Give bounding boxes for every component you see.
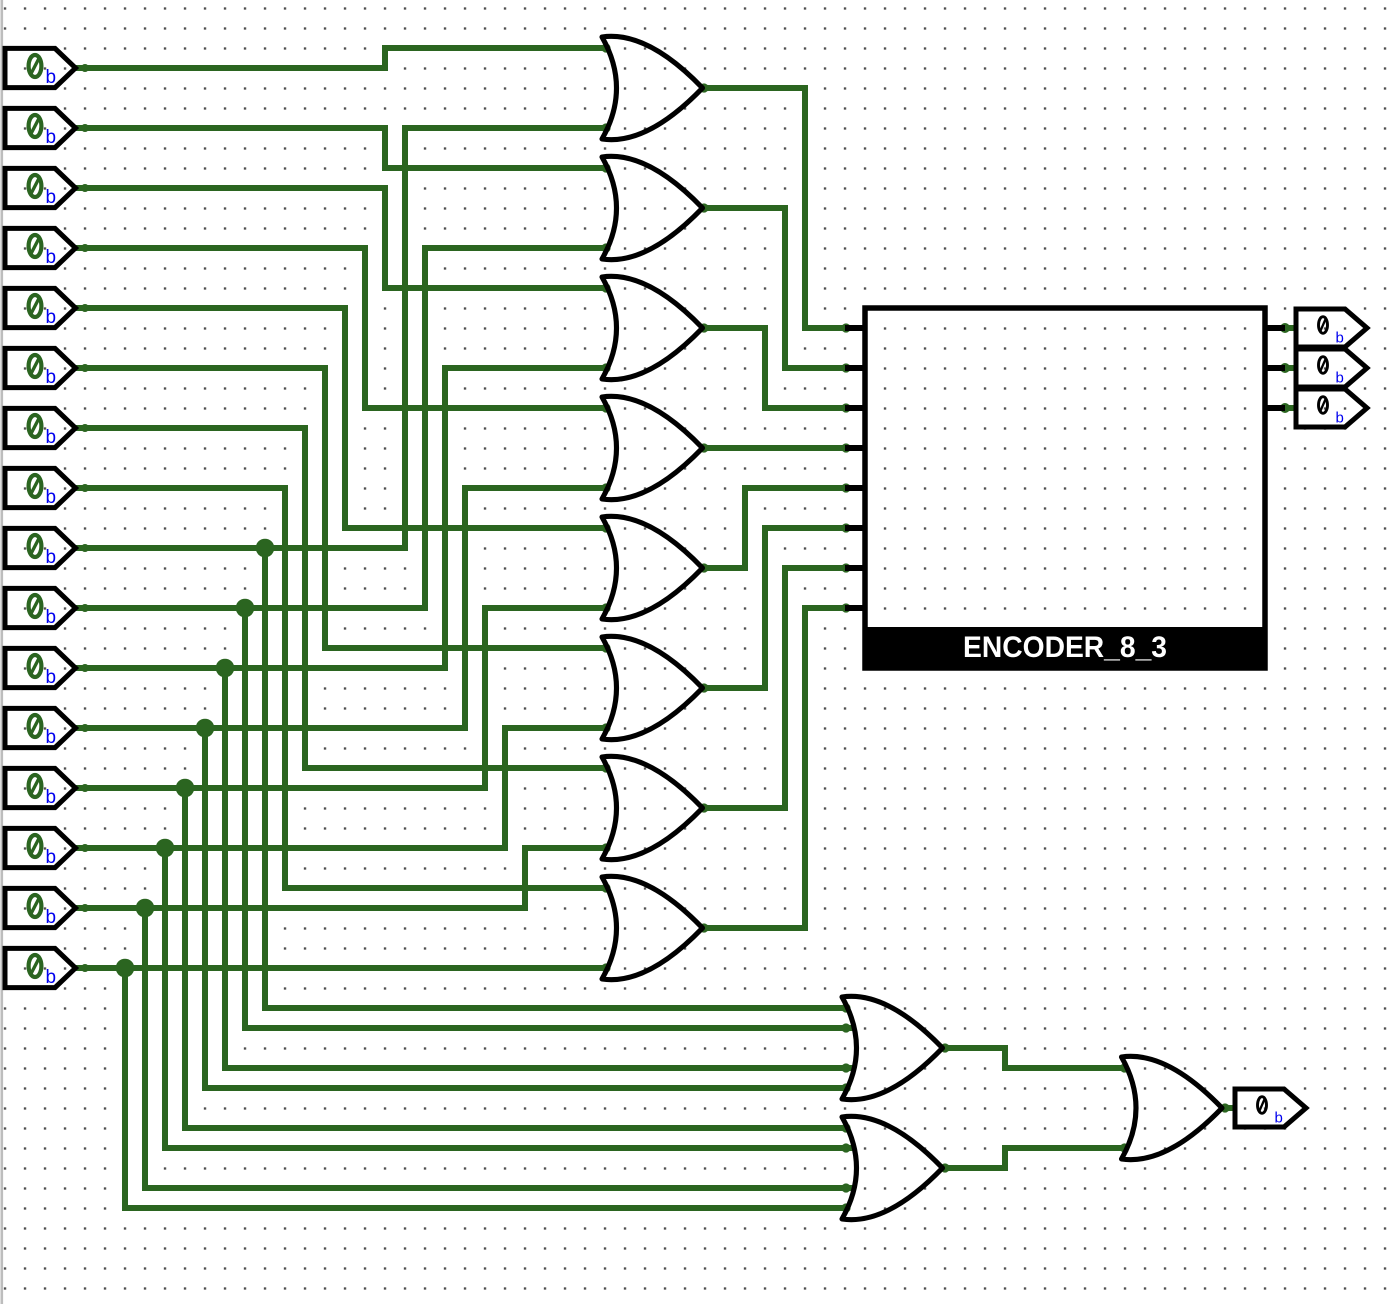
or-gate U1: [602, 36, 703, 139]
wire I5 to OR U5 input A: [76, 308, 608, 528]
node OR input y=168: [601, 163, 610, 172]
node I15 pin output: [81, 904, 89, 912]
node OR U2 output: [699, 203, 708, 212]
wire I8 to OR U8 input A: [76, 488, 608, 888]
node OR input y=488: [601, 483, 610, 492]
svg-text:b: b: [46, 847, 57, 868]
node OR U11 input 1: [841, 1123, 850, 1132]
wire I9 to OR U1 input B: [76, 128, 608, 548]
node I8 pin output: [81, 484, 89, 492]
node encoder IN0: [841, 323, 850, 332]
wire I2 to OR U2 input A: [76, 128, 608, 168]
svg-text:b: b: [46, 67, 57, 88]
or-gate U2: [602, 156, 703, 259]
encoder U9 ENCODER_8_3: [845, 308, 1285, 670]
wire OR U3 output to encoder IN2: [703, 328, 846, 408]
wire encoder OUT0 to pin O1: [1283, 325, 1297, 331]
node encoder IN7: [841, 603, 850, 612]
wire I9 branch to OR U10: [265, 548, 846, 1008]
wire I10 branch to OR U10: [245, 608, 853, 1028]
svg-text:b: b: [46, 787, 57, 808]
wire I7 to OR U7 input A: [76, 428, 608, 768]
svg-text:b: b: [1336, 410, 1344, 427]
wire encoder OUT1 to pin O2: [1283, 365, 1297, 371]
wire I3 to OR U3 input A: [76, 188, 608, 288]
output pin O4: [1235, 1089, 1306, 1127]
node OR U4 output: [699, 443, 708, 452]
input pin I15: [5, 888, 76, 928]
svg-text:b: b: [1275, 1110, 1283, 1127]
node OR U3 output: [699, 323, 708, 332]
node OR U10 input 2: [841, 1023, 850, 1032]
svg-text:b: b: [46, 967, 57, 988]
node encoder OUT1: [1280, 363, 1290, 373]
node I5 pin output: [81, 304, 89, 312]
input pin I7: [5, 408, 76, 448]
node OR U7 output: [699, 803, 708, 812]
svg-text:b: b: [46, 907, 57, 928]
wire encoder OUT2 to pin O3: [1283, 405, 1297, 411]
or-gate U8: [602, 876, 703, 979]
or-gate U4: [602, 396, 703, 499]
wire OR U8 output to encoder IN7: [703, 608, 846, 928]
node OR U10 input 3: [841, 1063, 850, 1072]
node I9 pin output: [81, 544, 89, 552]
wire I15 to OR U7 input B: [76, 848, 608, 908]
node OR input y=728: [601, 723, 610, 732]
node OR input y=888: [601, 883, 610, 892]
wire I10 to OR U2 input B: [76, 248, 608, 608]
wire I16 branch to OR U11: [125, 968, 846, 1208]
wire OR U12 output to pin O4: [1225, 1105, 1237, 1111]
node OR input y=288: [601, 283, 610, 292]
node OR input y=768: [601, 763, 610, 772]
node I13 pin output: [81, 784, 89, 792]
node encoder IN5: [841, 523, 850, 532]
svg-text:b: b: [46, 487, 57, 508]
input pin I10: [5, 588, 76, 628]
junction I16 branch: [116, 959, 135, 978]
svg-text:b: b: [46, 127, 57, 148]
wire OR U4 output to encoder IN3: [703, 445, 846, 451]
junction I10 branch: [236, 599, 255, 618]
node OR input y=368: [601, 363, 610, 372]
node encoder IN1: [841, 363, 850, 372]
output pin O2: [1296, 349, 1367, 387]
wire I12 to OR U4 input B: [76, 488, 608, 728]
wire OR U1 output to encoder IN0: [703, 88, 846, 328]
node OR input y=408: [601, 403, 610, 412]
junction I9 branch: [256, 539, 275, 558]
input pin I1: [5, 48, 76, 88]
node OR input y=648: [601, 643, 610, 652]
wire OR U7 output to encoder IN6: [703, 568, 846, 808]
or-gate U5: [602, 516, 703, 619]
node OR U5 output: [699, 563, 708, 572]
or-gate U10: [842, 996, 943, 1099]
node I1 pin output: [81, 64, 89, 72]
junction I11 branch: [216, 659, 235, 678]
wire I6 to OR U6 input A: [76, 368, 608, 648]
node OR U10 input 1: [841, 1003, 850, 1012]
input pin I3: [5, 168, 76, 208]
node OR U8 output: [699, 923, 708, 932]
node OR input y=528: [601, 523, 610, 532]
junction I14 branch: [156, 839, 175, 858]
wire OR U2 output to encoder IN1: [703, 208, 846, 368]
or-gate U7: [602, 756, 703, 859]
node OR U11 input 2: [841, 1143, 850, 1152]
wire I15 branch to OR U11: [145, 908, 853, 1188]
output pin O3: [1296, 389, 1367, 427]
node I7 pin output: [81, 424, 89, 432]
wire I13 to OR U5 input B: [76, 608, 608, 788]
svg-text:b: b: [46, 667, 57, 688]
node I2 pin output: [81, 124, 89, 132]
svg-text:b: b: [46, 727, 57, 748]
node OR input y=968: [601, 963, 610, 972]
or-gate U11: [842, 1116, 943, 1219]
wire I14 to OR U6 input B: [76, 728, 608, 848]
svg-text:b: b: [1336, 330, 1344, 347]
svg-text:b: b: [46, 427, 57, 448]
input pin I4: [5, 228, 76, 268]
node encoder IN6: [841, 563, 850, 572]
input pin I8: [5, 468, 76, 508]
wire I1 to OR U1 input A: [76, 48, 608, 68]
svg-text:b: b: [46, 187, 57, 208]
or-gate U3: [602, 276, 703, 379]
svg-text:b: b: [46, 607, 57, 628]
input pin I6: [5, 348, 76, 388]
node OR input y=48: [601, 43, 610, 52]
node OR U1 output: [699, 83, 708, 92]
input pin I9: [5, 528, 76, 568]
node I14 pin output: [81, 844, 89, 852]
node I11 pin output: [81, 664, 89, 672]
or-gate U12: [1122, 1056, 1223, 1159]
input pin I5: [5, 288, 76, 328]
svg-text:b: b: [46, 367, 57, 388]
wire I16 to OR U8 input B: [76, 965, 608, 971]
input pin I2: [5, 108, 76, 148]
wire I14 branch to OR U11: [165, 848, 853, 1148]
wire I11 to OR U3 input B: [76, 368, 608, 668]
wire OR U6 output to encoder IN5: [703, 528, 846, 688]
node OR input y=608: [601, 603, 610, 612]
node I4 pin output: [81, 244, 89, 252]
node OR input y=848: [601, 843, 610, 852]
node OR U11 input 3: [841, 1183, 850, 1192]
node encoder IN4: [841, 483, 850, 492]
output pin O1: [1296, 309, 1367, 347]
node OR U10 input 4: [841, 1083, 850, 1092]
input pin I14: [5, 828, 76, 868]
node OR input y=128: [601, 123, 610, 132]
node OR U12 input B: [1120, 1143, 1129, 1152]
svg-text:ENCODER_8_3: ENCODER_8_3: [963, 631, 1167, 664]
node encoder OUT2: [1280, 403, 1290, 413]
wire I13 branch to OR U11: [185, 788, 846, 1128]
input pin I13: [5, 768, 76, 808]
node OR input y=248: [601, 243, 610, 252]
node OR U12 output: [1220, 1103, 1229, 1112]
or-gate U6: [602, 636, 703, 739]
wire OR U10 output to OR U12 input A: [945, 1048, 1128, 1068]
input pin I16: [5, 948, 76, 988]
junction I12 branch: [196, 719, 215, 738]
svg-text:b: b: [46, 547, 57, 568]
node I10 pin output: [81, 604, 89, 612]
junction I13 branch: [176, 779, 195, 798]
node I12 pin output: [81, 724, 89, 732]
input pin I12: [5, 708, 76, 748]
svg-text:b: b: [46, 247, 57, 268]
wire I12 branch to OR U10: [205, 728, 846, 1088]
svg-text:b: b: [1336, 370, 1344, 387]
junction I15 branch: [136, 899, 155, 918]
wire I4 to OR U4 input A: [76, 248, 608, 408]
node I3 pin output: [81, 184, 89, 192]
input pin I11: [5, 648, 76, 688]
node encoder IN2: [841, 403, 850, 412]
node encoder OUT0: [1280, 323, 1290, 333]
node OR U12 input A: [1120, 1063, 1129, 1072]
wire OR U11 output to OR U12 input B: [945, 1148, 1128, 1168]
wire I11 branch to OR U10: [225, 668, 853, 1068]
svg-text:b: b: [46, 307, 57, 328]
wire OR U5 output to encoder IN4: [703, 488, 846, 568]
node OR U6 output: [699, 683, 708, 692]
node OR U10 output: [940, 1043, 949, 1052]
node I16 pin output: [81, 964, 89, 972]
node OR U11 output: [940, 1163, 949, 1172]
node I6 pin output: [81, 364, 89, 372]
node OR U11 input 4: [841, 1203, 850, 1212]
node encoder IN3: [841, 443, 850, 452]
